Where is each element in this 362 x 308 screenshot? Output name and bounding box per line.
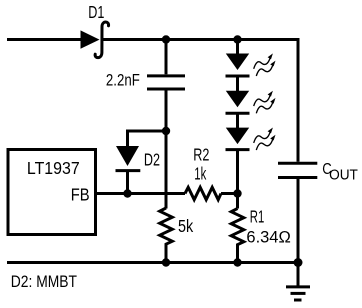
svg-text:R1: R1 [250, 207, 264, 227]
wire bottom rail [7, 261, 298, 264]
capacitor COUT [278, 163, 317, 262]
node junction cap C1 top [162, 35, 170, 43]
svg-text:D1: D1 [88, 3, 104, 23]
diode D1 (schottky) [81, 22, 109, 58]
capacitor C1 2.2nF [147, 40, 185, 209]
svg-text:LT1937: LT1937 [27, 158, 80, 178]
node junction 5k bottom [162, 258, 170, 266]
wire input top-left [7, 38, 82, 41]
resistor R1 [231, 209, 244, 263]
node junction FB / D2 [123, 189, 131, 197]
light arrows LED2 [254, 91, 276, 114]
LED LED1 [226, 54, 250, 77]
wire R2 to LED node [221, 192, 238, 195]
svg-text:2.2nF: 2.2nF [106, 71, 140, 90]
light arrows LED3 [254, 127, 276, 150]
svg-text:R2: R2 [193, 146, 209, 166]
LED LED2 [226, 91, 250, 114]
LED string wires [236, 40, 239, 55]
svg-text:5k: 5k [178, 216, 194, 236]
label COUT [322, 161, 358, 184]
wire top rail [102, 40, 298, 162]
node junction D2 branch [162, 127, 170, 135]
svg-text:FB: FB [71, 185, 90, 205]
ground [286, 263, 310, 301]
svg-text:D2: MMBT: D2: MMBT [11, 273, 78, 292]
diode D2 [116, 146, 141, 194]
wire D2 branch [128, 131, 167, 147]
svg-text:D2: D2 [144, 151, 160, 171]
resistor R2 [185, 187, 221, 199]
node junction ground [294, 258, 303, 267]
node junction LED string top [233, 35, 241, 43]
svg-text:1k: 1k [194, 164, 206, 184]
wire LED3 to R1 node [236, 151, 239, 209]
node junction R1 top [233, 189, 241, 197]
wire LED2-LED3 [236, 115, 239, 129]
light arrows LED1 [254, 53, 276, 76]
resistor 5k [160, 208, 173, 263]
wire LED1-LED2 [236, 78, 239, 92]
node junction R1 bottom [233, 258, 241, 266]
svg-text:6.34Ω: 6.34Ω [246, 227, 290, 246]
IC U1 LT1937 [8, 150, 96, 235]
LED LED3 [226, 128, 250, 150]
wire FB [97, 192, 185, 195]
svg-text:OUT: OUT [329, 167, 358, 184]
